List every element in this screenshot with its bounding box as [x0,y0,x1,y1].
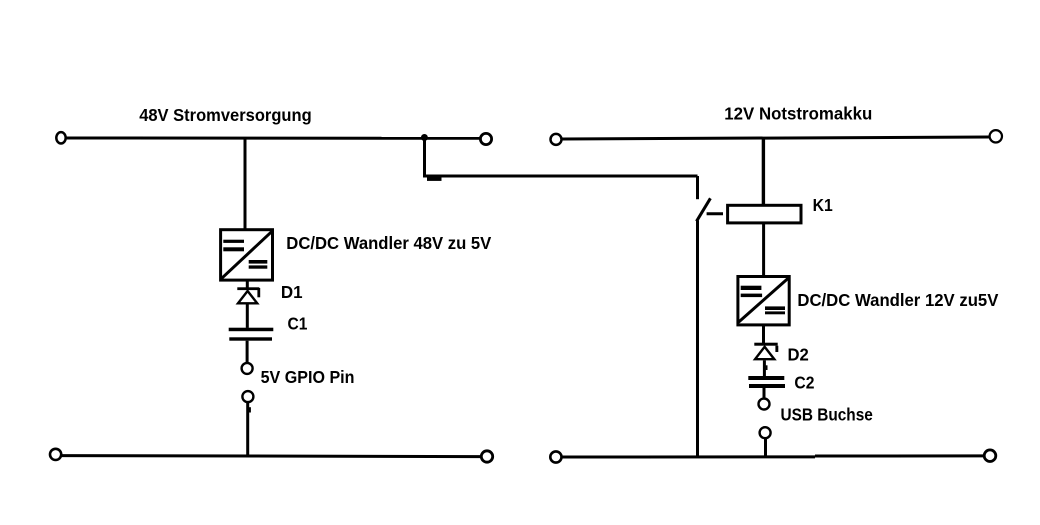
terminal bottom-left right circuit [550,451,561,462]
wire switch lower lead down to bottom rail [696,221,699,457]
wire U2 to D2 [762,324,765,344]
wire overdrawn dash at corner [427,177,442,181]
wire D1 to C1 [246,305,249,328]
relay coil K1 box [728,205,801,223]
wire from top rail down to converter U1 [244,138,247,229]
wire junction drop [423,138,426,177]
terminal 5V GPIO lower [242,391,253,402]
DC/DC converter U1 box [221,230,273,280]
wire C1 to GPIO terminal [246,341,249,362]
U2 DC bars top-left [741,286,762,290]
wire nub on GPIO lead [249,407,251,412]
wire USB lower terminal to bottom rail [764,439,767,456]
U2 DC bars bottom-right [765,306,785,310]
wire top rail right circuit [562,137,989,139]
switch contact dash to relay K1 [707,212,723,215]
wire top rail down to relay K1 [762,138,765,205]
junction dot [421,134,428,141]
terminal 5V GPIO upper [242,363,253,374]
terminal USB upper [759,399,770,410]
terminal top-right right circuit [990,130,1002,142]
terminal top-left [56,132,65,143]
terminal top-right of left rail [480,133,491,144]
terminal top-left right circuit [551,134,562,145]
svg-text:5V GPIO Pin: 5V GPIO Pin [261,367,355,387]
wire interconnect horizontal to right circuit [423,175,698,178]
svg-text:C2: C2 [794,373,814,393]
U1 diagonal [221,231,272,278]
wire GPIO lower terminal to bottom rail [246,403,249,457]
capacitor C1 [229,328,274,341]
wire bottom rail right circuit second segment [815,454,984,457]
svg-text:DC/DC Wandler 12V zu5V: DC/DC Wandler 12V zu5V [797,290,998,310]
wire bottom rail right circuit [562,455,815,458]
svg-text:D1: D1 [281,282,303,302]
svg-text:DC/DC Wandler 48V zu 5V: DC/DC Wandler 48V zu 5V [286,233,491,253]
switch blade [697,198,711,221]
svg-text:D2: D2 [788,345,810,365]
U1 DC bars top-left [223,240,244,243]
svg-text:C1: C1 [288,314,308,334]
U1 DC bars bottom-right [249,260,268,264]
wire U1 to D1 [246,280,249,288]
svg-text:48V Stromversorgung: 48V Stromversorgung [139,105,312,125]
capacitor C2 [748,376,785,388]
wire K1 to converter U2 [762,223,765,276]
terminal bottom-left [50,449,61,460]
wire nub on D2-C2 lead [766,365,768,370]
wire D2 to C2 [763,360,766,376]
wire top rail left circuit [67,137,481,140]
DC/DC converter U2 box [738,277,789,325]
terminal USB lower [760,427,771,438]
terminal bottom-right of left rail [481,451,492,462]
U2 diagonal [739,278,789,322]
diode D1 zener [237,287,260,303]
terminal bottom-right right circuit [984,450,996,462]
svg-text:K1: K1 [813,195,833,215]
wire C2 to USB terminal [763,388,766,398]
wire bottom rail left circuit [62,456,481,457]
wire switch upper lead [696,176,699,199]
svg-text:USB Buchse: USB Buchse [781,404,874,424]
diode D2 zener [754,343,778,360]
svg-text:12V Notstromakku: 12V Notstromakku [724,103,872,123]
